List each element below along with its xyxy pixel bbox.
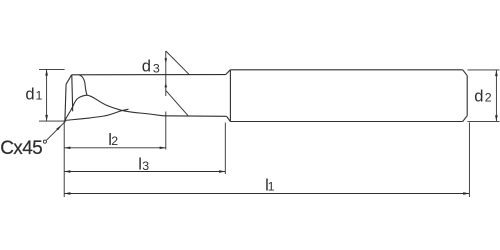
svg-text:3: 3 xyxy=(153,62,160,76)
svg-text:2: 2 xyxy=(485,90,492,104)
svg-text:d: d xyxy=(25,85,34,104)
svg-text:d: d xyxy=(142,56,151,75)
svg-text:1: 1 xyxy=(268,180,275,194)
svg-text:2: 2 xyxy=(111,134,118,148)
svg-text:3: 3 xyxy=(142,159,149,173)
svg-text:d: d xyxy=(474,86,483,105)
svg-text:1: 1 xyxy=(36,89,43,103)
svg-text:Cx45: Cx45 xyxy=(0,138,42,159)
